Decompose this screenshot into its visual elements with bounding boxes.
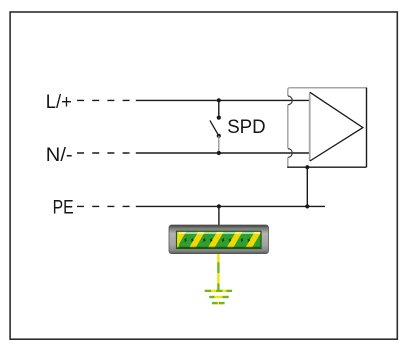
busbar bar border [177,231,262,248]
SPD switch: open blade [210,120,219,135]
SPD switch: node on N/- [217,151,221,155]
device triangle grey left edge [309,92,311,161]
protected device box: black right edge [366,88,368,168]
svg-text:PE: PE [53,197,74,218]
connector socket arc at N/- entry [288,149,292,158]
earth symbol bar 3 [212,302,225,304]
SPD switch: upper contact dot [217,116,221,120]
device triangle black sides [310,92,363,161]
busbar screw marks [185,239,250,242]
wire L/+ solid segment [136,99,310,101]
earth symbol bar 1 [205,290,232,292]
svg-text:N/-: N/- [46,145,73,166]
wire PE dashed segment [77,205,130,207]
earth symbol bar 2 [209,296,229,298]
earth conductor (green/yellow) [217,254,219,291]
protected device box: grey top and left edges with connector gaps [288,88,367,167]
wire L/+ dashed segment [77,99,130,101]
wire N/- dashed segment [77,152,130,154]
SPD switch: upper lead wire [218,100,220,117]
connector socket arc at L/+ entry [288,96,292,105]
SPD switch: lower lead wire (grey) [218,136,220,153]
SPD switch: lower contact dot [217,134,221,138]
protected device box: black bottom edge [287,166,366,168]
wire from device to PE [306,167,308,206]
wire from PE node to busbar [218,206,220,225]
SPD switch: node on L/+ [217,98,221,102]
wire N/- solid segment [136,152,310,154]
PE busbar metal frame [169,225,269,254]
node on device bottom edge [305,165,309,169]
node on PE above busbar [217,204,221,208]
svg-text:L/+: L/+ [46,92,72,113]
svg-text:SPD: SPD [227,116,265,138]
wire PE solid segment [136,205,325,207]
node on PE under device [305,204,309,208]
